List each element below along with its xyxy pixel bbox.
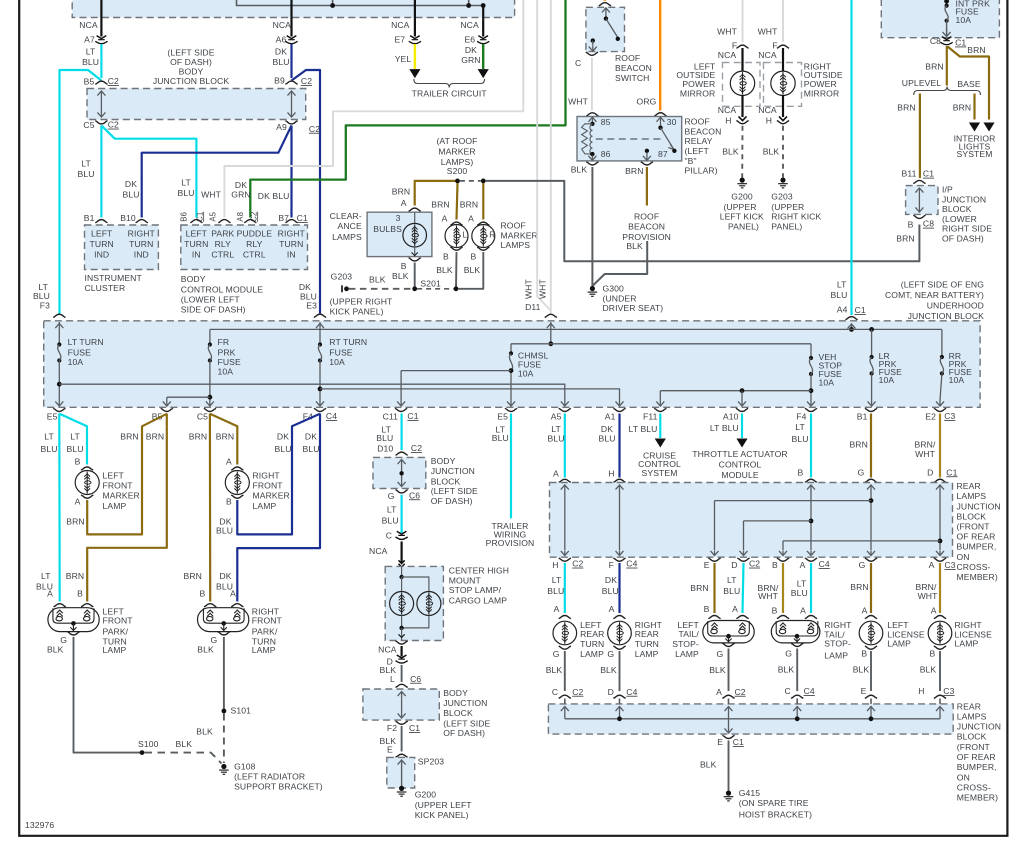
svg-text:(LEFT RADIATOR: (LEFT RADIATOR	[234, 772, 305, 782]
body junction block (top, cut off)	[72, 0, 514, 18]
ground G203 mirror	[780, 178, 785, 183]
svg-text:OF DASH): OF DASH)	[942, 233, 984, 243]
connector B rear block	[805, 479, 817, 482]
svg-text:LEFT: LEFT	[186, 229, 208, 239]
svg-text:FRONT: FRONT	[253, 481, 284, 491]
svg-text:LAMP: LAMP	[675, 649, 699, 659]
ground G300	[590, 286, 595, 291]
svg-text:RIGHT: RIGHT	[278, 229, 306, 239]
bcm box	[181, 225, 308, 270]
svg-text:C2: C2	[309, 124, 320, 134]
svg-text:OF DASH): OF DASH)	[431, 496, 473, 506]
svg-text:C2: C2	[108, 120, 119, 130]
lower block internals	[564, 699, 566, 704]
int prk fuse	[946, 0, 948, 6]
wire BLK provision to G300	[592, 241, 647, 286]
svg-text:A9: A9	[276, 122, 287, 132]
wire NCA to E6	[482, 6, 484, 37]
chmsl bottom join	[401, 616, 403, 628]
svg-text:BLU: BLU	[40, 444, 57, 454]
svg-text:C4: C4	[326, 411, 337, 421]
connector A1 exit	[613, 408, 625, 411]
wire DK BLU A1 to rear block H	[618, 414, 620, 478]
svg-text:BLOCK: BLOCK	[443, 708, 473, 718]
svg-text:SP203: SP203	[418, 757, 444, 767]
wire LT BLU E5 branch to left marker B	[59, 414, 87, 465]
svg-text:I/P: I/P	[942, 185, 953, 195]
svg-text:G203: G203	[771, 191, 793, 201]
svg-text:JUNCTION BLOCK: JUNCTION BLOCK	[908, 311, 985, 321]
wire NCA right mirror	[782, 48, 784, 72]
wire VEH STOP out	[810, 374, 812, 400]
svg-text:LT: LT	[44, 431, 54, 441]
wire LT BLU C11 to D10	[401, 414, 403, 451]
svg-text:132976: 132976	[25, 820, 54, 830]
svg-text:BLOCK: BLOCK	[431, 476, 461, 486]
svg-text:E: E	[861, 686, 867, 696]
connector B left tail lamp	[708, 616, 720, 619]
connector A right front marker	[231, 467, 243, 470]
svg-text:(LEFT SIDE OF ENG: (LEFT SIDE OF ENG	[901, 280, 984, 290]
instrument cluster box	[85, 225, 159, 270]
internal column H to F	[616, 485, 624, 490]
svg-text:C2: C2	[411, 443, 422, 453]
wire LT BLU G to C	[401, 495, 403, 533]
svg-text:IND: IND	[94, 249, 109, 259]
svg-text:C1: C1	[923, 169, 934, 179]
svg-text:WHT: WHT	[538, 279, 548, 300]
wire BLK right tail to C	[796, 649, 798, 692]
svg-text:DK: DK	[305, 431, 317, 441]
connector relay 30 top	[654, 113, 666, 116]
body junction block 3	[363, 689, 439, 720]
svg-text:10A: 10A	[956, 15, 972, 25]
svg-text:87: 87	[658, 149, 668, 159]
svg-text:G: G	[858, 467, 865, 477]
svg-text:B6: B6	[180, 212, 189, 222]
svg-text:BLK: BLK	[546, 665, 563, 675]
svg-text:RIGHT SIDE: RIGHT SIDE	[942, 224, 992, 234]
left mirror dashed box	[723, 63, 761, 107]
svg-text:BRN: BRN	[216, 431, 234, 441]
connector A rear block	[559, 479, 571, 482]
splice S201	[412, 286, 417, 291]
svg-text:BRN: BRN	[66, 571, 84, 581]
svg-text:A: A	[716, 687, 722, 697]
wire BRN uplevel to B11	[919, 94, 921, 179]
svg-text:LT: LT	[837, 280, 847, 290]
svg-text:BLU: BLU	[82, 57, 99, 67]
svg-text:PANEL): PANEL)	[728, 222, 759, 232]
wire BRN roof beacon provision	[646, 167, 648, 206]
connector F11 exit	[654, 408, 666, 411]
svg-text:WHT: WHT	[758, 26, 779, 36]
svg-text:BUMPER,: BUMPER,	[957, 762, 997, 772]
svg-text:BLU: BLU	[302, 444, 319, 454]
wire FR PRK out	[209, 361, 211, 401]
svg-text:E5: E5	[497, 412, 508, 422]
svg-text:NCA: NCA	[718, 50, 737, 60]
svg-text:(AT ROOF: (AT ROOF	[436, 136, 477, 146]
arrow exit E5	[55, 400, 63, 406]
arrow exit E5b	[507, 400, 515, 406]
arrow to interior lights right	[983, 123, 994, 132]
connector E2 exit	[934, 408, 946, 411]
wire BRN marker A to B5 net	[87, 414, 167, 535]
svg-text:A: A	[800, 560, 806, 570]
wire BRN WHT to right tail B	[782, 563, 784, 613]
svg-text:ROOF: ROOF	[634, 211, 659, 221]
connector B right front marker	[231, 495, 243, 498]
wire WHT vertical 1	[537, 0, 551, 311]
wire WHT A5 path	[224, 0, 523, 218]
svg-text:C: C	[552, 687, 558, 697]
svg-text:DK: DK	[219, 571, 231, 581]
svg-text:(UPPER: (UPPER	[771, 202, 804, 212]
svg-text:BLK: BLK	[700, 759, 717, 769]
svg-text:RLY: RLY	[215, 239, 232, 249]
svg-text:LT: LT	[41, 571, 51, 581]
svg-text:LT: LT	[81, 159, 91, 169]
svg-text:B9: B9	[274, 75, 285, 85]
wire BLK rrt to D	[619, 651, 621, 691]
svg-text:B: B	[471, 252, 477, 262]
svg-text:BRN: BRN	[66, 516, 84, 526]
svg-text:RIGHT: RIGHT	[253, 470, 281, 480]
svg-text:FRONT: FRONT	[252, 616, 283, 626]
svg-text:C4: C4	[626, 687, 637, 697]
dashed BLK G203 to S201	[349, 288, 412, 290]
wire NCA left mirror	[741, 48, 743, 72]
svg-text:JUNCTION BLOCK: JUNCTION BLOCK	[153, 76, 230, 86]
wire NCA to E7	[414, 0, 416, 37]
svg-text:D10: D10	[377, 444, 393, 454]
wire BRN C5 to right park lamp B	[209, 414, 212, 602]
svg-text:RIGHT: RIGHT	[128, 229, 156, 239]
svg-text:A: A	[468, 213, 474, 223]
connector G exit	[865, 558, 877, 561]
svg-text:G: G	[607, 649, 614, 659]
svg-text:(ON SPARE TIRE: (ON SPARE TIRE	[739, 798, 809, 808]
svg-text:LAMP: LAMP	[955, 639, 979, 649]
svg-text:LT: LT	[387, 505, 397, 515]
wire BRN C8 down to brace	[946, 46, 948, 86]
connector relay 87 bottom	[641, 162, 653, 165]
double arrow B5-C5	[97, 91, 105, 117]
connector B5 exit	[161, 408, 173, 411]
svg-text:BLK: BLK	[176, 739, 193, 749]
main fuse block box	[44, 321, 980, 408]
svg-text:DK: DK	[465, 45, 477, 55]
relay coil	[582, 124, 593, 154]
arrow to interior lights left	[969, 123, 980, 132]
svg-text:CONTROL MODULE: CONTROL MODULE	[181, 284, 263, 294]
sp203 box	[387, 757, 415, 788]
roof beacon switch box	[586, 7, 625, 51]
svg-text:GRN: GRN	[231, 190, 250, 200]
svg-text:B10: B10	[120, 213, 136, 223]
svg-text:LAMP: LAMP	[253, 501, 277, 511]
wire BRN clearance to S200	[415, 181, 458, 206]
wire BLK clearance to S201	[414, 263, 416, 289]
splice S200 right dot	[481, 179, 486, 184]
svg-text:BLK: BLK	[571, 164, 588, 174]
svg-text:NCA: NCA	[391, 20, 410, 30]
internal column D brnwht	[936, 485, 944, 490]
connector B clearance	[409, 258, 421, 261]
connector E5b exit	[505, 408, 517, 411]
bus RT TURN to A1	[320, 389, 620, 400]
wire BLK left license to E	[870, 651, 872, 691]
svg-text:CROSS-: CROSS-	[957, 562, 991, 572]
svg-text:B: B	[704, 604, 710, 614]
svg-text:MIRROR: MIRROR	[680, 88, 715, 98]
svg-text:A: A	[553, 469, 559, 479]
svg-text:KICK PANEL): KICK PANEL)	[415, 810, 469, 820]
wire NCA C to chmsl box	[401, 542, 403, 563]
connector B right tail lamp	[777, 616, 789, 619]
junction dot	[481, 3, 486, 8]
roof beacon relay box	[577, 117, 682, 161]
connector A left tail lamp	[736, 616, 748, 619]
svg-text:10A: 10A	[518, 369, 534, 379]
connector G right tail	[791, 643, 803, 646]
connector A left license	[865, 616, 877, 619]
left front park/turn lamp	[48, 608, 99, 632]
svg-text:C1: C1	[955, 38, 966, 48]
connector D11	[545, 314, 557, 317]
wire BRN WHT to right license A	[939, 563, 941, 613]
svg-text:E3: E3	[306, 301, 317, 311]
svg-text:A6: A6	[276, 35, 287, 45]
svg-text:SUPPORT BRACKET): SUPPORT BRACKET)	[234, 782, 323, 792]
svg-text:BRN: BRN	[146, 431, 164, 441]
svg-text:(FRONT: (FRONT	[957, 522, 991, 532]
wire BLK relay to G300	[591, 167, 593, 286]
svg-text:REAR: REAR	[957, 481, 981, 491]
connector G right rear turn	[613, 646, 625, 649]
rear lamps junction block upper	[550, 483, 953, 558]
svg-text:WHT: WHT	[568, 97, 589, 107]
connector B left roof marker	[450, 247, 462, 250]
wire WHT to right mirror	[782, 0, 784, 42]
svg-text:TURN: TURN	[184, 239, 208, 249]
connector G left park lamp	[67, 632, 79, 635]
svg-text:A: A	[401, 198, 407, 208]
svg-text:R: R	[489, 230, 495, 239]
svg-text:L: L	[463, 230, 468, 239]
svg-text:B1: B1	[857, 412, 868, 422]
svg-text:G415: G415	[739, 788, 761, 798]
svg-text:BUMPER,: BUMPER,	[957, 542, 997, 552]
svg-text:SYSTEM: SYSTEM	[642, 468, 678, 478]
svg-text:LAMP: LAMP	[103, 501, 127, 511]
svg-text:S100: S100	[138, 739, 159, 749]
svg-text:LAMP: LAMP	[887, 639, 911, 649]
wire BLK left park to S100	[74, 637, 143, 753]
double arrow bjb3	[398, 692, 406, 719]
svg-text:B11: B11	[902, 169, 917, 179]
svg-text:E: E	[387, 745, 393, 755]
chmsl internals	[401, 566, 403, 577]
svg-text:JUNCTION: JUNCTION	[957, 722, 1001, 732]
left front marker lamp	[75, 471, 99, 495]
svg-text:C: C	[784, 686, 790, 696]
svg-text:FR: FR	[218, 337, 230, 347]
wire LT BLU to left tail A	[743, 563, 744, 613]
svg-text:LAMPS: LAMPS	[957, 491, 987, 501]
svg-text:C1: C1	[297, 213, 308, 223]
wire BRN base to interior lights	[973, 94, 975, 120]
wire WHT switch to relay	[591, 58, 593, 111]
svg-text:C1: C1	[409, 723, 420, 733]
svg-text:(LOWER: (LOWER	[942, 214, 977, 224]
wire stub up 2	[468, 0, 470, 6]
svg-text:C2: C2	[108, 76, 119, 86]
svg-text:ANCE: ANCE	[338, 221, 362, 231]
svg-text:CONTROL: CONTROL	[719, 460, 762, 470]
wire NCA right mirror lower	[782, 95, 784, 117]
svg-text:BLU: BLU	[272, 57, 289, 67]
svg-text:S201: S201	[420, 278, 441, 288]
svg-text:B: B	[443, 252, 449, 262]
wire LT BLU A5 to rear block A	[564, 414, 566, 478]
connector F4 exit	[314, 408, 326, 411]
svg-text:BEACON: BEACON	[615, 63, 652, 73]
svg-text:FUSE: FUSE	[329, 347, 352, 357]
wire LT BLU B5 branch to F3 column	[60, 70, 102, 314]
svg-text:B: B	[75, 456, 81, 466]
svg-text:FRONT: FRONT	[103, 481, 134, 491]
svg-text:A: A	[609, 604, 615, 614]
svg-text:C5: C5	[83, 120, 94, 130]
right rear turn lamp	[608, 621, 632, 645]
connector B left license	[865, 646, 877, 649]
svg-text:WHT: WHT	[717, 26, 738, 36]
arrow throttle	[736, 439, 747, 448]
svg-text:F: F	[609, 560, 614, 570]
connector A left rear turn	[559, 616, 571, 619]
connector switch feed	[599, 3, 611, 6]
svg-text:LT: LT	[181, 178, 191, 188]
svg-text:BLK: BLK	[920, 665, 937, 675]
svg-text:JUNCTION: JUNCTION	[443, 698, 487, 708]
wire BLK right marker to S201 line	[458, 252, 483, 289]
connector A10 exit	[736, 408, 748, 411]
svg-text:RLY: RLY	[246, 239, 263, 249]
svg-text:DK: DK	[235, 180, 247, 190]
rear lamps junction block lower	[548, 704, 953, 734]
svg-text:A5: A5	[551, 412, 562, 422]
arrow trailer green	[478, 69, 489, 78]
wire WHT vertical 2	[550, 0, 552, 314]
svg-text:TURN: TURN	[635, 639, 659, 649]
double arrow ip block	[915, 188, 923, 212]
wire DK BLU B9 branch to E3 column	[292, 70, 321, 314]
left roof marker bulb L	[445, 225, 468, 248]
wire DK BLU F4 to right park lamp A	[237, 414, 320, 602]
svg-text:BLOCK: BLOCK	[942, 204, 972, 214]
svg-text:BRN: BRN	[625, 166, 643, 176]
wire BRN B1 to rear block G	[870, 414, 872, 478]
svg-text:A: A	[226, 456, 232, 466]
svg-text:H: H	[552, 560, 558, 570]
svg-text:(UPPER RIGHT: (UPPER RIGHT	[330, 296, 393, 306]
svg-text:C3: C3	[943, 686, 954, 696]
arrow int prk out	[946, 21, 948, 37]
svg-text:A: A	[47, 589, 53, 599]
svg-text:TAIL/: TAIL/	[678, 629, 699, 639]
svg-text:CARGO LAMP: CARGO LAMP	[449, 595, 507, 605]
svg-text:B: B	[199, 589, 205, 599]
svg-text:LAMP: LAMP	[580, 649, 604, 659]
bus LT TURN to A5	[59, 384, 565, 400]
svg-text:(LEFT SIDE: (LEFT SIDE	[443, 718, 490, 728]
svg-text:NCA: NCA	[718, 105, 737, 115]
wire BRN/WHT E2 to rear block D	[939, 414, 941, 478]
svg-text:B: B	[772, 605, 778, 615]
wire YEL to trailer	[414, 44, 416, 69]
svg-text:BLK: BLK	[197, 644, 214, 654]
svg-text:LT: LT	[795, 422, 805, 432]
svg-text:G108: G108	[234, 762, 256, 772]
clearance bulb	[414, 212, 416, 223]
connector C switch	[586, 52, 598, 55]
svg-text:WHT: WHT	[758, 591, 779, 601]
svg-text:H: H	[766, 115, 772, 125]
svg-text:TURN: TURN	[90, 239, 114, 249]
svg-text:A7: A7	[84, 35, 95, 45]
svg-text:WHT: WHT	[918, 591, 939, 601]
chmsl cargo lamp box	[385, 566, 443, 640]
svg-text:WHT: WHT	[201, 190, 222, 200]
svg-text:IND: IND	[134, 249, 149, 259]
branch stop to D exit	[744, 520, 812, 522]
svg-text:CTRL: CTRL	[211, 249, 234, 259]
svg-text:MARKER: MARKER	[501, 230, 538, 240]
svg-text:BLK: BLK	[763, 147, 780, 157]
svg-text:INSTRUMENT: INSTRUMENT	[85, 273, 143, 283]
svg-text:B1: B1	[84, 213, 95, 223]
svg-text:D: D	[731, 560, 737, 570]
svg-text:10A: 10A	[949, 375, 965, 385]
svg-text:FUSE: FUSE	[68, 347, 91, 357]
RR PRK FUSE	[941, 329, 943, 357]
svg-text:C2: C2	[572, 687, 583, 697]
connector B right license	[934, 646, 946, 649]
arrow exit F4	[316, 400, 324, 406]
svg-text:H: H	[918, 686, 924, 696]
wire ORG stub to switch	[604, 0, 606, 1]
svg-text:MARKER: MARKER	[103, 491, 140, 501]
wire LT TURN out	[58, 361, 60, 401]
connector E exit	[708, 558, 720, 561]
svg-text:85: 85	[601, 117, 611, 127]
wire LT BLU E5b trailer	[510, 414, 512, 519]
svg-text:LAMP: LAMP	[824, 650, 848, 660]
connector G left tail	[722, 643, 734, 646]
dashed S201 to second dot	[417, 288, 454, 290]
svg-text:DK BLU: DK BLU	[258, 191, 290, 201]
svg-text:BLK: BLK	[464, 265, 481, 275]
svg-text:TURN: TURN	[580, 639, 604, 649]
svg-text:A: A	[800, 605, 806, 615]
svg-text:MEMBER): MEMBER)	[957, 572, 998, 582]
wire NCA to A7	[100, 0, 102, 37]
svg-text:BRN: BRN	[849, 440, 867, 450]
branch park to E exit	[715, 500, 872, 502]
svg-text:B: B	[798, 467, 804, 477]
